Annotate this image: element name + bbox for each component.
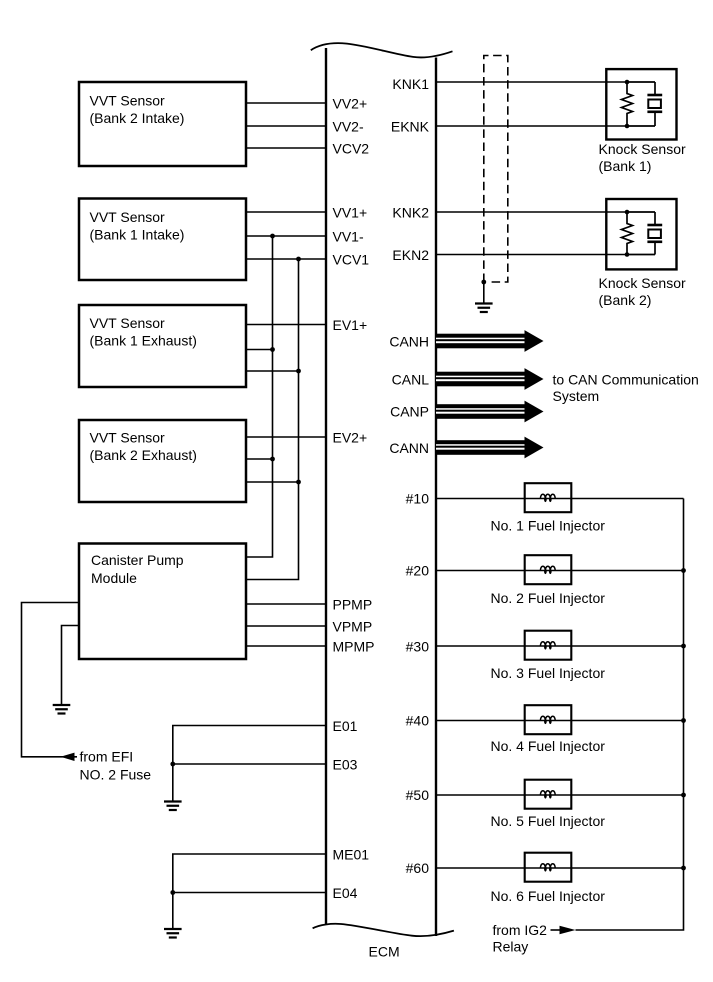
wire #10 injector row bbox=[436, 498, 684, 500]
svg-text:No. 6 Fuel Injector: No. 6 Fuel Injector bbox=[491, 888, 606, 904]
svg-text:CANL: CANL bbox=[392, 372, 430, 388]
wire #60 injector row bbox=[436, 867, 684, 869]
junction bank2 exhaust pin3 bbox=[296, 480, 301, 485]
junction ME01/E04 bbox=[170, 890, 175, 895]
E04 ground symbol bbox=[164, 928, 182, 930]
svg-text:to CAN Communication: to CAN Communication bbox=[553, 372, 699, 388]
shield junction bbox=[481, 280, 486, 285]
VVT Sensor (Bank 1 Exhaust) box bbox=[79, 305, 246, 387]
fuel injector 2 box bbox=[525, 555, 572, 584]
Canister Pump Module box bbox=[79, 544, 246, 660]
canister ground wire bbox=[62, 626, 80, 706]
shield dashed box bbox=[484, 56, 508, 283]
injector supply bus wire bbox=[576, 499, 684, 931]
svg-text:(Bank 2): (Bank 2) bbox=[599, 292, 652, 308]
svg-text:CANN: CANN bbox=[389, 440, 429, 456]
CANP bus arrow bbox=[436, 404, 525, 419]
wire MPMP bbox=[246, 645, 326, 647]
wire VV2- bbox=[246, 125, 326, 127]
wire VV1+ bbox=[246, 211, 326, 213]
svg-text:VVT Sensor: VVT Sensor bbox=[90, 315, 166, 331]
knock sensor (Bank 1) box bbox=[606, 69, 676, 139]
CANH bus arrow bbox=[436, 334, 525, 349]
fuel injector 2 coil bbox=[540, 566, 555, 570]
svg-text:CANH: CANH bbox=[389, 334, 429, 350]
E04 ground stem bbox=[172, 893, 174, 930]
svg-text:E03: E03 bbox=[333, 757, 358, 773]
svg-text:No. 5 Fuel Injector: No. 5 Fuel Injector bbox=[491, 813, 606, 829]
wire VCV1 bbox=[246, 258, 326, 260]
fuel injector 3 coil bbox=[540, 642, 555, 646]
svg-text:(Bank 1 Intake): (Bank 1 Intake) bbox=[90, 227, 185, 243]
ECM right edge bbox=[435, 58, 437, 937]
wire to EFI NO.2 fuse bbox=[22, 603, 80, 757]
svg-text:No. 4 Fuel Injector: No. 4 Fuel Injector bbox=[491, 738, 606, 754]
svg-text:VV2+: VV2+ bbox=[333, 96, 368, 112]
fuel injector 5 box bbox=[525, 780, 572, 809]
svg-text:#40: #40 bbox=[406, 713, 430, 729]
junction injector bus #40 bbox=[681, 718, 686, 723]
svg-text:from EFI: from EFI bbox=[80, 749, 134, 765]
junction injector bus #20 bbox=[681, 568, 686, 573]
svg-text:KNK2: KNK2 bbox=[392, 205, 429, 221]
knock sensor (Bank 2) box bbox=[606, 199, 676, 269]
shield ground symbol bbox=[475, 302, 493, 304]
knock sensor 1 bottom junction bbox=[625, 124, 630, 129]
bus wire 2 (VCV1 / exhaust pin3 / canister) bbox=[246, 259, 299, 580]
wire VCV2 bbox=[246, 147, 326, 149]
knock sensor 2 piezo element bbox=[627, 211, 655, 213]
junction on VV1- bbox=[270, 234, 275, 239]
wire bank1 exhaust pin2 bbox=[246, 349, 273, 351]
VVT Sensor (Bank 1 Intake) box bbox=[79, 199, 246, 281]
fuel injector 6 coil bbox=[540, 864, 555, 868]
E03 ground symbol bbox=[164, 800, 182, 802]
arrowhead from EFI fuse bbox=[61, 753, 75, 761]
svg-text:VV1+: VV1+ bbox=[333, 205, 368, 221]
svg-text:No. 2 Fuel Injector: No. 2 Fuel Injector bbox=[491, 590, 606, 606]
junction on VCV1 bbox=[296, 257, 301, 262]
wire E01 bbox=[173, 726, 326, 765]
svg-text:System: System bbox=[553, 388, 600, 404]
svg-text:#30: #30 bbox=[406, 639, 430, 655]
fuel injector 6 box bbox=[525, 853, 572, 882]
svg-text:ME01: ME01 bbox=[333, 847, 370, 863]
svg-text:VV2-: VV2- bbox=[333, 119, 364, 135]
fuel injector 1 coil bbox=[540, 494, 555, 498]
svg-text:VCV2: VCV2 bbox=[333, 141, 370, 157]
junction injector bus #30 bbox=[681, 644, 686, 649]
svg-text:MPMP: MPMP bbox=[333, 639, 375, 655]
wire E04 bbox=[173, 892, 326, 894]
CANN bus arrow bbox=[436, 440, 525, 455]
svg-text:Knock Sensor: Knock Sensor bbox=[599, 275, 686, 291]
wire EKN2 bbox=[436, 254, 627, 256]
wire ME01 bbox=[173, 854, 326, 893]
CANL bus arrow bbox=[436, 372, 525, 387]
wire EV2+ bbox=[246, 436, 326, 438]
wire PPMP bbox=[246, 603, 326, 605]
junction injector bus #50 bbox=[681, 793, 686, 798]
svg-text:NO. 2 Fuse: NO. 2 Fuse bbox=[80, 767, 152, 783]
fuel injector 5 coil bbox=[540, 791, 555, 795]
svg-text:VVT Sensor: VVT Sensor bbox=[90, 93, 166, 109]
svg-text:PPMP: PPMP bbox=[333, 597, 373, 613]
junction injector bus #60 bbox=[681, 866, 686, 871]
bus wire 1 (VV1- / exhaust pin2 / canister) bbox=[246, 236, 273, 557]
svg-text:VCV1: VCV1 bbox=[333, 252, 370, 268]
svg-text:(Bank 1): (Bank 1) bbox=[599, 158, 652, 174]
svg-text:KNK1: KNK1 bbox=[392, 76, 429, 92]
svg-text:EKN2: EKN2 bbox=[392, 247, 429, 263]
svg-text:(Bank 2 Intake): (Bank 2 Intake) bbox=[90, 110, 185, 126]
wire bank2 exhaust pin3 bbox=[246, 481, 299, 483]
wire #20 injector row bbox=[436, 570, 684, 572]
svg-text:(Bank 1 Exhaust): (Bank 1 Exhaust) bbox=[90, 333, 197, 349]
svg-text:#10: #10 bbox=[406, 491, 430, 507]
ECM top wavy edge bbox=[311, 43, 453, 57]
junction bank1 exhaust pin2 bbox=[270, 347, 275, 352]
svg-text:E04: E04 bbox=[333, 885, 358, 901]
fuel injector 4 box bbox=[525, 705, 572, 734]
svg-text:Module: Module bbox=[91, 570, 137, 586]
wire VV1- bbox=[246, 235, 326, 237]
svg-text:#20: #20 bbox=[406, 563, 430, 579]
svg-text:No. 1 Fuel Injector: No. 1 Fuel Injector bbox=[491, 518, 606, 534]
wire #30 injector row bbox=[436, 645, 684, 647]
svg-text:EKNK: EKNK bbox=[391, 119, 430, 135]
knock sensor 1 resistor bbox=[622, 82, 633, 126]
svg-text:VV1-: VV1- bbox=[333, 229, 364, 245]
svg-text:#60: #60 bbox=[406, 860, 430, 876]
VVT Sensor (Bank 2 Intake) box bbox=[79, 82, 246, 166]
ECM left edge bbox=[325, 48, 327, 925]
knock sensor 2 top junction bbox=[625, 210, 630, 215]
fuel injector 3 box bbox=[525, 631, 572, 660]
svg-text:Relay: Relay bbox=[493, 939, 529, 955]
wire KNK1 bbox=[436, 81, 627, 83]
arrowhead to injector bus bbox=[560, 926, 576, 934]
knock sensor 1 top junction bbox=[625, 80, 630, 85]
E03 ground stem bbox=[172, 764, 174, 802]
wire bank2 exhaust pin2 bbox=[246, 458, 273, 460]
wire #50 injector row bbox=[436, 794, 684, 796]
svg-text:Knock Sensor: Knock Sensor bbox=[599, 141, 686, 157]
wire EKNK bbox=[436, 125, 627, 127]
wire EV1+ bbox=[246, 324, 326, 326]
svg-text:#50: #50 bbox=[406, 787, 430, 803]
svg-text:No. 3 Fuel Injector: No. 3 Fuel Injector bbox=[491, 665, 606, 681]
svg-text:Canister Pump: Canister Pump bbox=[91, 552, 184, 568]
shield ground stem bbox=[483, 282, 485, 303]
wire KNK2 bbox=[436, 211, 627, 213]
svg-text:CANP: CANP bbox=[390, 404, 429, 420]
knock sensor 1 piezo element bbox=[627, 81, 655, 83]
svg-text:EV2+: EV2+ bbox=[333, 430, 368, 446]
wire E03 bbox=[173, 763, 326, 765]
svg-text:VVT Sensor: VVT Sensor bbox=[90, 209, 166, 225]
svg-text:ECM: ECM bbox=[369, 944, 400, 960]
knock sensor 2 resistor bbox=[622, 212, 633, 255]
junction bank1 exhaust pin3 bbox=[296, 369, 301, 374]
svg-text:VPMP: VPMP bbox=[333, 619, 373, 635]
VVT Sensor (Bank 2 Exhaust) box bbox=[79, 420, 246, 502]
svg-text:(Bank 2 Exhaust): (Bank 2 Exhaust) bbox=[90, 447, 197, 463]
wire #40 injector row bbox=[436, 720, 684, 722]
svg-text:VVT Sensor: VVT Sensor bbox=[90, 430, 166, 446]
wire VPMP bbox=[246, 625, 326, 627]
ECM bottom wavy edge bbox=[313, 924, 454, 936]
svg-text:EV1+: EV1+ bbox=[333, 317, 368, 333]
wire stub from IG2 relay bbox=[551, 929, 563, 931]
wire VV2+ bbox=[246, 102, 326, 104]
junction E01/E03 bbox=[170, 762, 175, 767]
fuel injector 4 coil bbox=[540, 716, 555, 720]
svg-text:E01: E01 bbox=[333, 718, 358, 734]
fuel injector 1 box bbox=[525, 483, 572, 512]
canister ground symbol bbox=[53, 704, 71, 706]
wire bank1 exhaust pin3 bbox=[246, 370, 299, 372]
svg-text:from IG2: from IG2 bbox=[493, 922, 548, 938]
junction bank2 exhaust pin2 bbox=[270, 457, 275, 462]
knock sensor 2 bottom junction bbox=[625, 252, 630, 257]
